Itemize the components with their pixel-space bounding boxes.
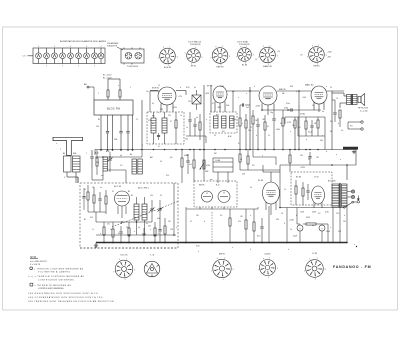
resistor R7 <box>252 110 258 150</box>
svg-text:a: a <box>118 85 119 87</box>
svg-text:1n: 1n <box>100 187 102 189</box>
label 220pF <box>185 139 188 141</box>
heater of 6V3 (series chain) <box>98 46 104 64</box>
socket view EL84 (S4) <box>236 46 254 67</box>
svg-text:15k: 15k <box>150 195 153 197</box>
svg-text:a: a <box>262 155 263 157</box>
node C.V input <box>23 56 34 58</box>
resistor R30 filter <box>303 223 320 225</box>
svg-text:7: 7 <box>185 53 186 55</box>
svg-text:6,8k: 6,8k <box>157 218 160 220</box>
svg-text:5: 5 <box>315 279 316 281</box>
resistor R29 <box>302 182 304 205</box>
socket view EM85 (S6) <box>307 45 327 68</box>
svg-text:CONTROLEUR UNIVERSEL: CONTROLEUR UNIVERSEL <box>38 279 75 281</box>
svg-text:a: a <box>232 247 233 249</box>
svg-text:0,1: 0,1 <box>152 103 154 105</box>
svg-text:TOILE B4 M: TOILE B4 M <box>127 66 138 68</box>
capacitor C27 fm <box>82 188 85 210</box>
svg-text:22k: 22k <box>126 227 129 229</box>
svg-text:0,1μF: 0,1μF <box>308 132 312 134</box>
svg-text:3: 3 <box>134 269 135 271</box>
svg-text:EF 41: EF 41 <box>191 66 197 68</box>
label 220 fm <box>148 226 151 228</box>
svg-text:0,1: 0,1 <box>240 159 242 161</box>
svg-text:a: a <box>238 97 239 99</box>
svg-text:390: 390 <box>276 219 279 221</box>
svg-text:10: 10 <box>120 223 122 225</box>
wire fm box bottom rail <box>96 234 176 236</box>
svg-text:9: 9 <box>263 258 264 260</box>
svg-text:EABC 80: EABC 80 <box>305 84 314 87</box>
svg-text:b: b <box>306 139 307 141</box>
wire ground bus (heavy) <box>96 242 347 244</box>
svg-text:2k: 2k <box>290 229 292 231</box>
label T-B <box>150 255 155 257</box>
capacitor C16 <box>98 192 101 212</box>
svg-text:0,1: 0,1 <box>330 87 332 89</box>
wire HT feeder 1 <box>203 85 205 150</box>
svg-text:= TENSION CONTINUE MESUREE: = TENSION CONTINUE MESUREE AU <box>34 267 84 270</box>
antenna ANT1 (frame aerial) <box>53 137 83 155</box>
svg-text:a: a <box>206 119 207 121</box>
svg-text:+170V: +170V <box>172 107 178 109</box>
wire eye feeder dashed <box>211 212 213 243</box>
svg-text:0,5: 0,5 <box>220 215 222 217</box>
svg-text:12: 12 <box>158 85 160 87</box>
capacitor C26 coupling <box>287 108 292 111</box>
svg-text:56k: 56k <box>320 140 323 142</box>
resistor R28 <box>295 180 297 205</box>
wire V4 anode <box>327 91 344 93</box>
tube V8 leads <box>314 202 322 208</box>
svg-text:15: 15 <box>268 135 270 137</box>
svg-text:47k: 47k <box>148 120 151 122</box>
resistor R32 <box>289 150 291 173</box>
resistor R9 <box>282 110 284 150</box>
wire AF signal <box>261 108 321 111</box>
svg-text:HP W-74.05: HP W-74.05 <box>358 107 368 109</box>
svg-text:220: 220 <box>300 155 303 157</box>
transformer T1 power <box>332 183 347 208</box>
svg-text:6,3: 6,3 <box>318 213 320 215</box>
svg-text:FM4: FM4 <box>205 171 208 173</box>
svg-text:125: 125 <box>336 213 339 215</box>
svg-text:EM 85: EM 85 <box>219 254 226 256</box>
svg-text:B1 +41,5V: B1 +41,5V <box>103 75 112 77</box>
svg-text:5: 5 <box>46 66 47 68</box>
resistor R14 osc <box>181 149 183 183</box>
svg-text:470k: 470k <box>286 103 290 105</box>
wire screen feeder <box>141 100 143 150</box>
capacitor C7 padder <box>90 150 93 168</box>
svg-text:47: 47 <box>212 103 214 105</box>
resistor R12 <box>317 117 319 136</box>
capacitor C11 <box>256 118 259 150</box>
tube V3 pin wires <box>262 104 274 116</box>
svg-text:1: 1 <box>246 46 247 48</box>
svg-text:a: a <box>246 93 247 95</box>
wire antenna coil to gang <box>67 172 78 183</box>
tube V2 EF89 <box>207 86 227 104</box>
svg-text:4: 4 <box>38 46 39 48</box>
socket view T-B (P2) <box>144 261 160 277</box>
socket view ECC85 bottom (P1) <box>113 258 135 281</box>
svg-text:2n: 2n <box>186 127 188 129</box>
svg-text:ALIMENTATION DES FILAMENTS: ALIMENTATION DES FILAMENTS DES LAMPES <box>60 40 107 43</box>
capacitor C4 tuner decoupling <box>119 115 122 151</box>
legend item controleur <box>28 275 85 281</box>
socket view EF41 (S2) <box>185 47 203 68</box>
svg-text:ECH 81: ECH 81 <box>164 67 172 69</box>
svg-text:b: b <box>296 215 297 217</box>
svg-text:5: 5 <box>268 277 269 279</box>
svg-text:5: 5 <box>98 93 99 95</box>
svg-text:25: 25 <box>308 159 310 161</box>
block FI2 IF transformer (dashed) <box>210 112 237 133</box>
tube V4 EABC80 <box>305 84 327 105</box>
wire HT feeder 5 <box>331 93 333 150</box>
block power unit (dashed) <box>291 172 332 205</box>
svg-text:a: a <box>242 123 243 125</box>
potentiometer VR1 volume <box>199 160 210 170</box>
wire det loop <box>285 117 325 124</box>
svg-text:7: 7 <box>86 153 87 155</box>
wire tuner lead 6 <box>132 115 134 151</box>
svg-text:47k: 47k <box>330 121 333 123</box>
svg-text:3: 3 <box>64 177 65 179</box>
caption above S2 <box>188 42 202 46</box>
dashed bottom edge <box>80 247 178 249</box>
svg-text:47k: 47k <box>238 221 241 223</box>
transformer T2 output <box>347 94 358 105</box>
misc value labels 2 <box>90 85 346 231</box>
wire V2-V3 link <box>227 90 259 112</box>
label A-50 <box>95 152 99 155</box>
svg-text:4n: 4n <box>146 223 148 225</box>
svg-text:50p: 50p <box>270 112 273 114</box>
svg-text:a: a <box>134 231 135 233</box>
svg-text:= INTENSITE MESUREE AU: = INTENSITE MESUREE AU <box>35 284 72 287</box>
socket view EZ80 bottom (P5) <box>304 258 326 281</box>
svg-text:b: b <box>296 91 297 93</box>
legend condensateurs <box>28 296 103 299</box>
svg-text:9: 9 <box>263 46 264 48</box>
resistor R24 <box>164 218 166 243</box>
svg-text:10k: 10k <box>232 91 235 93</box>
switch SW1 mains <box>343 201 357 208</box>
label transformer <box>328 181 336 183</box>
misc value labels <box>84 107 343 231</box>
wire rail mid <box>240 165 280 170</box>
wire B1 feed <box>108 79 120 88</box>
svg-text:CONTROLEUR UNIVERSEL: CONTROLEUR UNIVERSEL <box>38 288 65 290</box>
resistor R22 <box>128 222 130 243</box>
resistor R13 tone <box>339 110 341 127</box>
resistor R11 <box>305 117 307 136</box>
svg-text:1n5: 1n5 <box>146 91 149 93</box>
svg-text:470kΩ: 470kΩ <box>300 114 306 116</box>
capacitor C9 <box>188 112 191 136</box>
svg-text:100k: 100k <box>276 129 280 131</box>
resistor R3 <box>96 150 98 175</box>
svg-text:8: 8 <box>284 223 285 225</box>
svg-text:pF: pF <box>120 155 122 157</box>
svg-text:50: 50 <box>214 135 216 137</box>
terminal J2 pickup <box>348 122 363 130</box>
resistor R1 above tuner <box>107 88 109 101</box>
tube V1 pin wires <box>150 91 173 112</box>
heater of EL84 (series chain) <box>68 46 74 64</box>
svg-text:47: 47 <box>190 221 192 223</box>
block FI1 IF transformer (dashed) <box>147 112 184 144</box>
wire el84 screen <box>263 165 271 172</box>
svg-text:8: 8 <box>142 145 143 147</box>
label EZ 80 <box>296 177 319 179</box>
svg-text:ECC 85: ECC 85 <box>114 186 122 188</box>
wire ps drop 4 <box>332 208 334 243</box>
resistor R2 above tuner <box>119 88 121 101</box>
svg-text:V = VOLTS: V = VOLTS <box>30 264 41 266</box>
wire HT feeder 4 <box>298 105 300 150</box>
resistor R10 <box>287 117 296 150</box>
svg-text:5Y3: 5Y3 <box>338 231 341 233</box>
wire eye bus <box>186 207 258 243</box>
svg-text:B2: B2 <box>98 119 100 121</box>
svg-text:1k: 1k <box>92 229 94 231</box>
svg-text:A 30: A 30 <box>228 135 231 138</box>
label B1 supply <box>103 75 112 80</box>
svg-text:5: 5 <box>62 66 63 68</box>
capacitor C28 <box>308 152 311 165</box>
svg-text:A4: A4 <box>63 152 65 155</box>
svg-text:4: 4 <box>86 46 87 48</box>
svg-text:1W: 1W <box>316 157 319 159</box>
wire gang link <box>92 168 103 180</box>
coil L6 FM IF <box>142 197 147 235</box>
legend item voltmetre <box>30 267 84 274</box>
svg-text:VOLTMETRE A LAMPES: VOLTMETRE A LAMPES <box>38 270 70 273</box>
mains voltage selector plate <box>121 48 144 65</box>
label 6,8k <box>157 218 160 220</box>
resistor R4 <box>199 114 201 140</box>
svg-text:1k: 1k <box>312 105 314 107</box>
resistor R8 <box>264 115 269 150</box>
legend tensions <box>28 300 114 303</box>
svg-text:0,1: 0,1 <box>238 143 240 145</box>
svg-text:150: 150 <box>96 126 99 128</box>
label +250V <box>255 106 261 108</box>
svg-text:1: 1 <box>224 257 225 259</box>
label BLOC FM 4 <box>138 188 149 190</box>
svg-text:4,7: 4,7 <box>158 146 160 148</box>
wire anode to OT <box>332 93 347 108</box>
svg-text:3: 3 <box>277 268 278 270</box>
wire mid link <box>95 150 142 158</box>
svg-text:4n7: 4n7 <box>298 127 301 129</box>
wire bus left drop <box>95 243 97 249</box>
svg-text:EM 85: EM 85 <box>199 185 204 187</box>
svg-text:4: 4 <box>101 46 102 48</box>
svg-text:1: 1 <box>318 45 319 47</box>
wire from dipole to tuner <box>84 83 94 100</box>
svg-text:A-30: A-30 <box>106 150 110 153</box>
label 6,3V bottom <box>196 246 200 248</box>
pin labels beside S6 <box>301 52 333 59</box>
resistor R21 <box>112 222 114 243</box>
svg-text:1k: 1k <box>284 189 286 191</box>
svg-text:50μF: 50μF <box>293 236 297 238</box>
svg-text:BLOC FM 4: BLOC FM 4 <box>138 188 149 190</box>
svg-text:B1: B1 <box>131 195 133 197</box>
capacitor C8 trimmer <box>108 152 113 172</box>
wire ps drop 2 <box>296 208 298 225</box>
svg-text:470: 470 <box>90 217 93 219</box>
capacitor C2 tuner decoupling <box>106 115 109 151</box>
svg-text:a: a <box>56 143 57 145</box>
svg-text:68: 68 <box>330 131 332 133</box>
socket view ECH81 (S1) <box>158 46 178 69</box>
svg-text:+250V: +250V <box>289 220 295 222</box>
wire bus stub down-left <box>94 150 96 156</box>
svg-text:FANDANGO - FM: FANDANGO - FM <box>333 265 371 269</box>
svg-text:5n: 5n <box>322 111 324 113</box>
terminal J1 pickup <box>348 121 363 123</box>
coil L3 oscillator <box>103 157 108 171</box>
svg-text:50: 50 <box>281 213 283 215</box>
socket view EBF89 bottom (P4) <box>258 258 278 279</box>
svg-text:EF 89: EF 89 <box>207 86 213 88</box>
svg-text:7: 7 <box>158 58 159 60</box>
svg-text:220: 220 <box>185 139 188 141</box>
capacitor C19 <box>119 226 122 243</box>
filament chain box outline <box>33 48 105 64</box>
svg-text:1: 1 <box>269 258 270 260</box>
transformer T3 osc coupling <box>192 90 201 110</box>
svg-text:47k: 47k <box>107 224 110 226</box>
svg-text:220: 220 <box>168 115 171 117</box>
svg-text:5k: 5k <box>250 187 252 189</box>
svg-text:50: 50 <box>160 161 162 163</box>
wire B+ rail right <box>280 164 356 166</box>
tube V3 EBF89 <box>259 86 287 105</box>
svg-text:a: a <box>322 135 323 137</box>
wire B+ drop <box>355 150 357 166</box>
capacitor C14 tone <box>332 100 337 122</box>
capacitor C13 <box>308 120 314 136</box>
svg-text:4n7: 4n7 <box>189 164 192 166</box>
heater of EM85 (series chain) <box>84 46 90 64</box>
svg-text:B4: B4 <box>130 154 132 156</box>
wire chassis bus <box>95 149 356 151</box>
svg-text:22k: 22k <box>188 101 191 103</box>
capacitor C25 coupling <box>240 103 250 112</box>
svg-text:+170: +170 <box>178 96 182 98</box>
wire tuner lead 3 <box>112 115 114 151</box>
svg-text:9: 9 <box>309 259 310 261</box>
svg-text:2k: 2k <box>160 195 162 197</box>
capacitor C20 <box>142 228 145 243</box>
svg-text:LES TENSIONS SONT RELEVEES E: LES TENSIONS SONT RELEVEES EN POSITION A… <box>28 300 114 303</box>
svg-text:4n: 4n <box>194 87 196 89</box>
svg-text:220: 220 <box>148 226 151 228</box>
resistor R31 het <box>193 149 195 181</box>
wire HT feeder 2 <box>210 85 212 112</box>
coil L4 AM oscillator <box>132 159 142 174</box>
svg-text:7: 7 <box>304 271 305 273</box>
tube V2 pin wires <box>215 102 225 113</box>
tube V4 pin wires <box>314 103 324 113</box>
capacitor C18 gang section <box>158 200 163 222</box>
svg-text:3: 3 <box>177 56 178 58</box>
junction dots rail <box>203 149 311 151</box>
svg-text:osc: osc <box>101 175 104 177</box>
svg-text:110: 110 <box>343 221 346 223</box>
block BLOC FM (UHF tuner) <box>94 100 133 115</box>
svg-text:C7 82: C7 82 <box>312 253 318 255</box>
svg-text:1n: 1n <box>196 117 198 119</box>
label EM 85 bottom <box>219 254 226 256</box>
capacitor C12 <box>272 110 275 150</box>
svg-text:40: 40 <box>312 225 314 227</box>
wire av feeder <box>268 206 270 243</box>
resistor R19 <box>105 190 107 214</box>
svg-text:6,8k: 6,8k <box>226 105 229 107</box>
svg-text:3: 3 <box>201 57 202 59</box>
svg-text:a: a <box>150 229 151 231</box>
svg-text:a: a <box>176 227 177 229</box>
svg-text:+250: +250 <box>302 97 306 99</box>
caption above S4 <box>237 41 249 46</box>
svg-text:47: 47 <box>170 121 172 123</box>
tube V6 EM85 magic eye (dashed box) <box>194 181 237 207</box>
svg-text:ECC 85: ECC 85 <box>120 255 128 257</box>
legend resistances <box>28 292 98 295</box>
label 6,3V <box>186 87 190 89</box>
svg-text:4: 4 <box>198 251 199 253</box>
svg-text:a: a <box>326 86 327 88</box>
svg-text:5: 5 <box>125 279 126 281</box>
wire fm box vertical 2 <box>158 222 161 243</box>
svg-text:5: 5 <box>94 66 95 68</box>
svg-text:b: b <box>118 233 119 235</box>
svg-text:CULOT RIMLOCK: CULOT RIMLOCK <box>188 42 202 44</box>
wire fm block internals <box>88 212 152 223</box>
label ECC 85 bottom <box>120 255 128 257</box>
label 4,7k <box>184 155 189 157</box>
lamp LP2 dial <box>347 195 355 198</box>
socket view EBF80 (S3) <box>210 46 230 69</box>
transformer L1/L2 antenna coils <box>63 152 80 172</box>
svg-text:2: 2 <box>130 87 131 89</box>
switch box SW2 AM/FM <box>213 158 233 183</box>
loop wire AF out <box>298 117 325 150</box>
wire fm box right vertical <box>173 183 175 236</box>
label 25V <box>242 174 246 176</box>
svg-text:4k7: 4k7 <box>222 131 225 133</box>
svg-text:a: a <box>290 131 291 133</box>
svg-text:B1: B1 <box>84 219 86 221</box>
svg-text:3: 3 <box>253 55 254 57</box>
svg-text:6: 6 <box>250 249 251 251</box>
svg-text:b: b <box>256 135 257 137</box>
svg-text:1n: 1n <box>180 115 182 117</box>
svg-text:22: 22 <box>250 127 252 129</box>
svg-text:BLT 2085: BLT 2085 <box>328 181 336 183</box>
socket view EM85 bottom (P3) <box>211 257 234 281</box>
svg-text:7: 7 <box>258 270 259 272</box>
svg-text:4: 4 <box>54 46 55 48</box>
